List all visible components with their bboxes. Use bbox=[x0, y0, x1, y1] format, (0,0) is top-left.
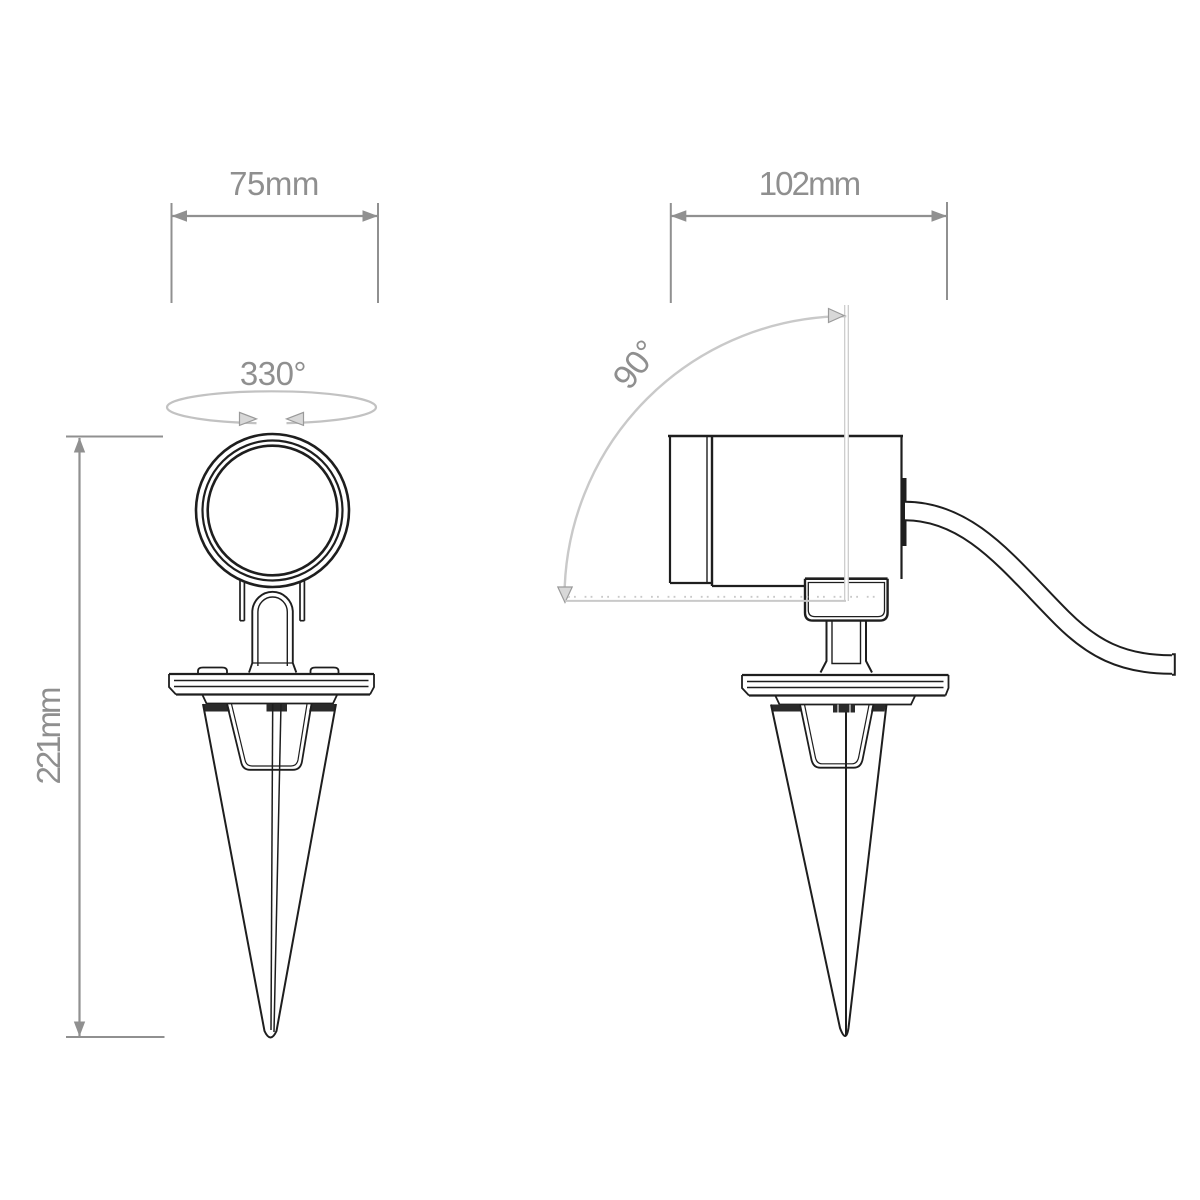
svg-text:102mm: 102mm bbox=[759, 165, 860, 202]
spike center pole left line bbox=[271, 704, 273, 1030]
right spike center line bbox=[845, 713, 847, 1036]
tilt arc bottom arrowhead bbox=[558, 587, 572, 603]
spike center pole right line bbox=[274, 704, 281, 1032]
stem inner outline bbox=[258, 597, 287, 666]
plate second line bbox=[174, 680, 369, 682]
yoke right arm bbox=[300, 581, 304, 621]
cable outline outer bbox=[905, 511, 1172, 665]
dimension 75mm left extension line bbox=[171, 203, 173, 303]
dimension 102mm line bbox=[671, 215, 947, 217]
right spike outer left line bbox=[771, 705, 887, 1037]
dimension 75mm line bbox=[172, 215, 378, 217]
stem foot line bbox=[252, 662, 292, 664]
right plate second line bbox=[747, 681, 944, 683]
rotation ellipse 330 degrees bbox=[167, 391, 376, 423]
rotation right arrowhead bbox=[287, 412, 304, 425]
tilt dotted horizontal line bbox=[568, 596, 884, 598]
dimension 75mm right arrowhead bbox=[363, 210, 379, 221]
lens divider right line bbox=[711, 436, 713, 586]
lens bottom edge bbox=[670, 582, 712, 584]
right plate top edge bbox=[742, 674, 949, 676]
knuckle top edge bbox=[805, 577, 888, 580]
right spike junction fill left bbox=[772, 705, 803, 712]
plate lip bbox=[203, 695, 338, 704]
tilt vertical indicator line bbox=[844, 305, 849, 601]
head inner circle bbox=[208, 446, 338, 576]
hinge stem inner bbox=[832, 621, 861, 664]
body top edge bbox=[668, 435, 903, 437]
plate third line bbox=[174, 686, 369, 688]
spike junction fill left bbox=[204, 704, 231, 712]
svg-text:75mm: 75mm bbox=[229, 165, 319, 202]
dimension 221mm bottom arrowhead bbox=[74, 1022, 85, 1037]
body left edge bbox=[669, 436, 671, 583]
dimension 102mm right extension line bbox=[946, 202, 948, 300]
right plate right edge bbox=[946, 675, 949, 696]
right plate lip bbox=[776, 696, 916, 705]
rotation ellipse gap mask bbox=[257, 411, 287, 427]
spike outer left line bbox=[203, 704, 336, 1038]
dimension 221mm bottom tick bbox=[66, 1036, 165, 1038]
right spike cup outer bbox=[800, 705, 874, 768]
body right edge bbox=[900, 436, 902, 579]
dimension 75mm right extension line bbox=[377, 203, 379, 303]
plate left screw tab bbox=[198, 668, 227, 674]
dimension 221mm top arrowhead bbox=[74, 438, 85, 453]
plate bottom line bbox=[176, 693, 370, 695]
tilt solid horizontal line bbox=[565, 600, 846, 602]
yoke left arm bbox=[240, 581, 244, 621]
plate right screw tab bbox=[311, 668, 339, 674]
dimension 102mm right arrowhead bbox=[932, 210, 948, 221]
cable end cap bbox=[1172, 654, 1175, 675]
cable gland tab bbox=[901, 478, 907, 546]
right plate left edge bbox=[742, 675, 749, 696]
spike junction fill right bbox=[309, 704, 336, 712]
tilt arc top arrowhead bbox=[829, 309, 845, 323]
dimension 221mm top tick bbox=[66, 436, 163, 438]
spike cup inner bbox=[232, 704, 308, 766]
knuckle outer box bbox=[805, 579, 888, 621]
right spike cup inner bbox=[805, 705, 870, 764]
svg-text:221mm: 221mm bbox=[30, 688, 67, 785]
svg-text:330°: 330° bbox=[240, 355, 306, 392]
head middle ring bbox=[203, 441, 343, 581]
cable core white bbox=[905, 511, 1172, 665]
dimension 75mm left arrowhead bbox=[172, 210, 188, 221]
spike junction fill center bbox=[267, 704, 288, 712]
knuckle inner box bbox=[808, 583, 884, 617]
dimension 102mm left extension line bbox=[670, 203, 672, 303]
spike cup outer bbox=[227, 704, 312, 770]
plate right edge bbox=[370, 674, 374, 695]
right spike junction fill right bbox=[871, 705, 886, 712]
tilt arc 90 degrees bbox=[565, 316, 847, 598]
under-plate nut bbox=[833, 705, 855, 713]
stem outer outline bbox=[249, 592, 296, 673]
rotation left arrowhead bbox=[240, 412, 257, 425]
plate left edge bbox=[169, 674, 176, 695]
right plate bottom line bbox=[749, 694, 946, 696]
lens divider left line bbox=[706, 436, 708, 583]
plate top edge bbox=[169, 673, 374, 675]
dimension 102mm left arrowhead bbox=[671, 210, 687, 221]
right plate third line bbox=[747, 687, 944, 689]
dimension 221mm vertical line bbox=[78, 438, 80, 1036]
body bottom edge bbox=[712, 585, 805, 587]
head outer circle bbox=[196, 434, 349, 587]
hinge stem outer bbox=[821, 621, 873, 673]
